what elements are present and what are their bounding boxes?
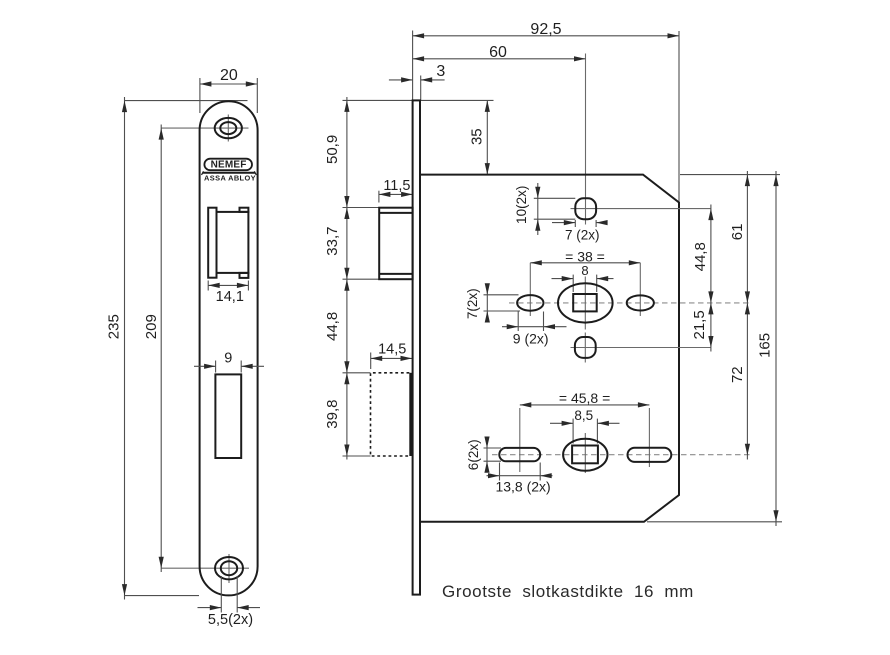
svg-text:61: 61 [729, 224, 746, 241]
svg-text:14,5: 14,5 [378, 342, 406, 358]
svg-text:Grootste slotkastdikte 16 mm: Grootste slotkastdikte 16 mm [442, 582, 694, 601]
svg-text:6(2x): 6(2x) [466, 439, 481, 470]
svg-text:NEMEF: NEMEF [211, 159, 247, 170]
svg-text:60: 60 [489, 44, 507, 61]
svg-text:72: 72 [729, 366, 746, 383]
svg-text:33,7: 33,7 [324, 226, 341, 255]
svg-text:7 (2x): 7 (2x) [565, 227, 600, 242]
svg-text:50,9: 50,9 [324, 135, 341, 164]
svg-text:13,8 (2x): 13,8 (2x) [495, 479, 550, 495]
svg-text:14,1: 14,1 [216, 289, 244, 305]
svg-text:= 45,8 =: = 45,8 = [559, 390, 610, 406]
svg-text:9: 9 [224, 350, 232, 366]
svg-text:5,5(2x): 5,5(2x) [208, 612, 253, 628]
svg-text:11,5: 11,5 [383, 178, 410, 194]
svg-text:21,5: 21,5 [691, 310, 708, 339]
svg-text:44,8: 44,8 [324, 312, 341, 341]
svg-text:235: 235 [105, 314, 122, 339]
svg-text:39,8: 39,8 [324, 399, 341, 428]
svg-text:44,8: 44,8 [692, 242, 709, 271]
svg-text:209: 209 [143, 314, 160, 339]
svg-text:165: 165 [757, 333, 774, 358]
svg-text:92,5: 92,5 [530, 21, 561, 38]
svg-text:3: 3 [436, 63, 445, 80]
svg-text:9 (2x): 9 (2x) [513, 331, 549, 347]
svg-text:20: 20 [220, 67, 238, 84]
svg-text:8: 8 [581, 263, 588, 278]
svg-text:8,5: 8,5 [574, 408, 593, 423]
svg-text:10(2x): 10(2x) [514, 186, 529, 224]
svg-text:7(2x): 7(2x) [465, 288, 480, 319]
svg-text:ASSA ABLOY: ASSA ABLOY [204, 173, 256, 182]
svg-text:35: 35 [469, 128, 486, 145]
